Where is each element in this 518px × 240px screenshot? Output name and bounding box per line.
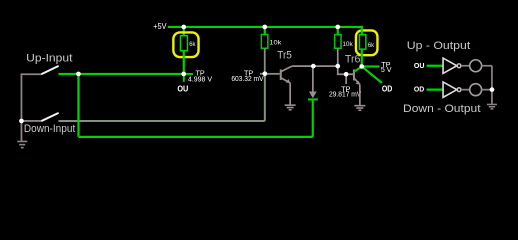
node dot outputs join xyxy=(490,87,495,92)
wire Tr5 base sage xyxy=(265,73,280,75)
wire TP tick right xyxy=(184,73,193,75)
wire base net vertical sage xyxy=(264,74,266,121)
diode D1 triangle xyxy=(309,91,317,98)
wire OU inverter input green xyxy=(427,65,443,67)
wire R4 bottom lead xyxy=(361,49,363,66)
highlight box R4 xyxy=(356,30,378,55)
wire OU net bottom horizontal xyxy=(78,136,312,138)
svg-text:10k: 10k xyxy=(342,41,353,48)
wire OU tick down xyxy=(183,74,185,82)
wire R1 bottom lead xyxy=(183,51,185,74)
wire Tr5 emitter down xyxy=(289,83,291,105)
wire L2 to corner xyxy=(482,89,492,91)
svg-text:10k: 10k xyxy=(269,40,282,47)
inverter U1 triangle xyxy=(443,58,457,73)
svg-text:OD: OD xyxy=(382,84,393,94)
wire OD net diagonal xyxy=(362,66,382,83)
node dot rail R2 xyxy=(262,25,267,30)
svg-text:Up - Output: Up - Output xyxy=(407,40,471,52)
Tr5 emitter arrow xyxy=(286,79,291,83)
node dot up wire xyxy=(76,72,81,77)
node Tr5 base dot xyxy=(263,71,268,76)
highlight box R1 xyxy=(173,32,198,57)
transistor Tr5 xyxy=(281,66,292,83)
Tr6 emitter arrow xyxy=(355,81,360,85)
switch S1 lever xyxy=(41,66,58,74)
wire Tr6 emitter down xyxy=(359,84,361,105)
node Tr6 base dot xyxy=(344,72,349,77)
resistor R1 6k body xyxy=(180,36,187,51)
inverter U2 triangle xyxy=(443,82,457,97)
wire U1 to lamp xyxy=(461,65,470,67)
wire R3 top lead xyxy=(337,27,339,35)
wire Tr5 collector rail xyxy=(292,65,338,67)
wire L1 to corner xyxy=(482,65,492,67)
node OU dot xyxy=(181,72,186,77)
ground Tr6 xyxy=(354,106,365,111)
node dot collector R3 xyxy=(335,64,340,69)
wire up switch to node xyxy=(58,73,183,75)
svg-text:OU: OU xyxy=(177,84,188,94)
wire step to Tr6 base xyxy=(338,66,354,74)
svg-text:4.998 V: 4.998 V xyxy=(188,76,213,83)
lamp L2 xyxy=(470,84,482,96)
ground Tr5 xyxy=(285,105,296,110)
wire TP3 tick right xyxy=(362,65,380,67)
wire R1 top lead xyxy=(183,27,185,36)
node dot down switch xyxy=(19,119,24,124)
ground right xyxy=(487,104,497,108)
wire U2 to lamp xyxy=(461,89,470,91)
wire rail corner into R4 xyxy=(361,26,363,35)
node diode anode dot xyxy=(311,64,316,69)
svg-text:6k: 6k xyxy=(189,41,196,48)
resistor R4 6k body xyxy=(359,35,365,49)
svg-text:6k: 6k xyxy=(368,42,375,49)
svg-text:Down - Output: Down - Output xyxy=(403,103,481,115)
wire diode anode xyxy=(312,66,314,92)
wire diode cathode down xyxy=(312,99,314,136)
node dot rail R3 xyxy=(335,25,340,30)
wire TP4 tick down xyxy=(345,74,347,84)
wire down switch to base net sage xyxy=(58,120,264,122)
wire R3 bottom lead gray xyxy=(337,48,339,66)
wire right vertical to ground xyxy=(491,66,493,104)
wire up-input L gray xyxy=(21,74,41,141)
diode D1 cathode bar xyxy=(308,98,318,100)
+5V rail wire xyxy=(168,26,362,28)
svg-text:Down-Input: Down-Input xyxy=(24,123,76,135)
svg-text:+5V: +5V xyxy=(153,21,167,31)
svg-text:OD: OD xyxy=(414,84,425,93)
switch S2 lever xyxy=(41,113,58,121)
svg-text:603.32 mV: 603.32 mV xyxy=(231,76,264,83)
svg-text:OU: OU xyxy=(414,61,425,70)
inverter U2 bubble xyxy=(457,88,461,92)
wire OD inverter input green xyxy=(427,89,443,91)
transistor Tr6 xyxy=(354,67,362,85)
wire OU net down xyxy=(77,74,79,137)
inverter U1 bubble xyxy=(457,64,461,68)
node Tr6 collector dot xyxy=(359,64,364,69)
ground left xyxy=(17,141,27,147)
resistor R2 10k body xyxy=(261,34,268,48)
svg-text:Tr5: Tr5 xyxy=(277,49,292,61)
resistor R3 10k body xyxy=(335,35,341,49)
node dot rail R1 xyxy=(181,25,186,30)
wire down pole gray xyxy=(21,120,41,122)
svg-text:Up-Input: Up-Input xyxy=(26,53,73,65)
wire TP2 tick left xyxy=(260,73,265,75)
svg-text:29.817 mV: 29.817 mV xyxy=(329,92,362,99)
lamp L1 xyxy=(470,60,482,72)
wire R2 bottom lead sage xyxy=(264,48,266,74)
svg-text:5 V: 5 V xyxy=(381,67,392,74)
wire R2 top lead xyxy=(264,27,266,35)
